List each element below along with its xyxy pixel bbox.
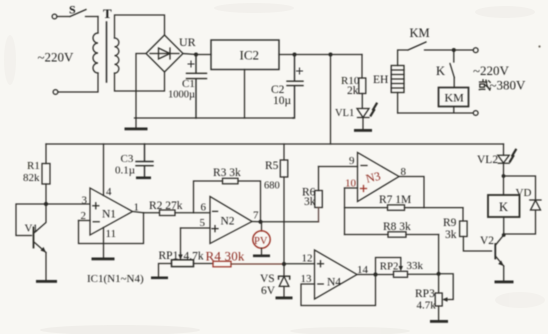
svg-text:4.7k: 4.7k [417, 300, 437, 312]
svg-text:VL2: VL2 [477, 154, 498, 166]
ground VS [276, 297, 293, 300]
svg-text:~220V: ~220V [473, 63, 510, 78]
speck [538, 45, 540, 47]
wire N1 output [133, 212, 160, 213]
wire +V down to op-amp rail [330, 55, 332, 145]
transformer T [93, 6, 119, 82]
ground RP3 [430, 320, 448, 323]
svg-text:R9: R9 [443, 217, 457, 229]
op-amp N2 [181, 197, 253, 244]
svg-text:VS: VS [260, 273, 275, 285]
svg-text:EH: EH [373, 74, 388, 86]
svg-text:6: 6 [201, 202, 207, 214]
junction RP2 right [437, 272, 441, 276]
svg-text:7: 7 [253, 210, 259, 222]
ground V1 [36, 280, 57, 283]
wire pin10 to R7 R8 [344, 188, 346, 235]
ground power rail [125, 118, 148, 130]
wire primary bottom [58, 73, 98, 92]
wire node to N4 pin12 [284, 263, 315, 265]
wire V2 emitter [503, 266, 505, 281]
svg-text:3k: 3k [304, 196, 316, 208]
svg-text:N4: N4 [327, 277, 341, 289]
svg-text:6V: 6V [261, 285, 276, 297]
node V1 base R1 [44, 202, 48, 206]
svg-text:N2: N2 [221, 216, 235, 228]
wire bridge plus to IC2 [183, 54, 211, 55]
svg-text:9: 9 [349, 155, 355, 167]
junction C2 top [293, 53, 297, 57]
ground C3 [136, 177, 151, 180]
transistor V1 [25, 204, 47, 253]
wire node to N1 pin3 [46, 203, 90, 205]
ground PV [253, 255, 270, 258]
svg-text:RP2: RP2 [380, 260, 399, 272]
wire N2 out to R6 [252, 221, 319, 223]
LED VL1 [335, 104, 377, 129]
svg-text:VL1: VL1 [335, 108, 354, 119]
svg-text:13: 13 [301, 273, 313, 285]
svg-text:4.7k: 4.7k [184, 251, 204, 263]
svg-text:R8 3k: R8 3k [383, 221, 411, 233]
svg-text:~380V: ~380V [490, 78, 527, 93]
junction VD branch [502, 174, 506, 178]
svg-text:R5: R5 [265, 160, 279, 172]
wire K coil to V2 [503, 217, 505, 235]
IC2 [211, 40, 279, 70]
svg-text:V1: V1 [25, 223, 38, 235]
ground N1 pin11 [92, 258, 115, 261]
op-amp N3 [345, 153, 400, 202]
diode VD [504, 176, 542, 234]
resistor R5 680 [264, 144, 288, 264]
svg-text:UR: UR [179, 35, 196, 49]
svg-text:N1: N1 [102, 209, 116, 221]
resistor R4 30k red [206, 249, 285, 267]
svg-text:33k: 33k [407, 260, 424, 272]
capacitor C1 1000u [168, 55, 207, 119]
terminal L1 top [52, 14, 57, 19]
junction N4 out [373, 272, 377, 276]
wire R8 to RP2 node [438, 235, 440, 274]
resistor R8 3k [345, 221, 439, 237]
svg-text:R1: R1 [27, 160, 40, 172]
capacitor C2 10u [271, 55, 303, 119]
junction C1 top [194, 53, 198, 57]
wire secondary bottom [115, 72, 165, 91]
contact KM [398, 26, 473, 66]
zener VS 6V [260, 264, 290, 297]
meter PV [253, 222, 270, 255]
resistor R10 2k [341, 55, 366, 109]
svg-text:R4 30k: R4 30k [206, 249, 245, 264]
svg-text:12: 12 [302, 253, 313, 265]
relay coil KM [439, 78, 469, 107]
svg-text:3: 3 [82, 195, 88, 207]
op-amp N4 [315, 250, 358, 299]
wire IC2 ground pin [244, 70, 246, 119]
junction N2 out [258, 220, 262, 224]
potentiometer RP2 33k [376, 258, 439, 278]
svg-text:0.1µ: 0.1µ [115, 165, 135, 177]
svg-text:K: K [436, 64, 445, 78]
svg-text:4: 4 [106, 186, 112, 198]
ground RP1 [151, 277, 168, 280]
terminal L1 bottom [53, 90, 58, 95]
svg-text:K: K [499, 200, 508, 214]
resistor R6 3k [302, 167, 322, 222]
svg-text:R7 1M: R7 1M [379, 194, 411, 206]
svg-text:IC2: IC2 [240, 48, 260, 63]
svg-text:IC1(N1~N4): IC1(N1~N4) [87, 273, 144, 285]
wire R6 to N3 pin9 [319, 166, 358, 168]
svg-text:S: S [69, 3, 76, 17]
wire primary top [97, 17, 99, 34]
svg-text:PV: PV [254, 236, 268, 247]
wire V1 emitter [45, 253, 47, 281]
svg-text:KM: KM [410, 26, 430, 40]
svg-text:10µ: 10µ [273, 95, 292, 107]
svg-text:T: T [103, 6, 112, 21]
svg-text:R2 27k: R2 27k [149, 200, 183, 212]
svg-text:2k: 2k [347, 85, 359, 97]
svg-text:C1: C1 [182, 78, 195, 90]
svg-text:2: 2 [81, 210, 87, 222]
svg-text:VD: VD [516, 187, 532, 199]
svg-text:~220V: ~220V [38, 50, 75, 65]
resistor R9 3k [443, 208, 492, 251]
svg-text:R3 3k: R3 3k [213, 167, 241, 179]
LED VL2 [477, 144, 516, 195]
svg-text:N3: N3 [364, 169, 382, 186]
op-amp N1 [79, 144, 133, 258]
power ground rail [135, 117, 294, 119]
svg-text:RP1: RP1 [159, 250, 179, 262]
svg-text:680: 680 [264, 181, 280, 192]
svg-text:82k: 82k [23, 172, 40, 184]
resistor R1 82k [23, 144, 50, 204]
wire N2 plus to RP1 wiper [180, 228, 182, 256]
heater EH [373, 66, 404, 114]
switch S [57, 3, 98, 17]
svg-text:3k: 3k [445, 229, 457, 241]
wire KM bottom [398, 107, 473, 114]
svg-text:V2: V2 [480, 235, 494, 247]
junction K branch [452, 48, 456, 52]
wire IC2 output [279, 54, 362, 56]
+V rail [46, 143, 504, 145]
capacitor C3 0.1u [115, 144, 153, 177]
wire N3 output [399, 177, 424, 208]
potentiometer RP3 4.7k [415, 274, 453, 320]
contact K [436, 50, 454, 78]
wire N4 feedback [301, 275, 376, 306]
resistor R3 3k [194, 167, 261, 222]
junction V2 collector [502, 233, 506, 237]
bridge rectifier UR [146, 35, 196, 72]
ground V2 [495, 281, 514, 284]
wire N1 feedback [79, 213, 144, 244]
svg-text:10: 10 [345, 178, 357, 190]
svg-text:1000µ: 1000µ [168, 90, 195, 101]
relay coil K [488, 195, 520, 217]
wire bridge minus to rail [136, 54, 146, 119]
terminal heater top [473, 48, 478, 53]
svg-text:5: 5 [200, 217, 206, 229]
junction +V drop [329, 53, 333, 57]
svg-text:11: 11 [106, 228, 117, 240]
terminal heater bottom [473, 111, 478, 116]
ground VL1 [354, 129, 372, 132]
wire secondary top [115, 15, 165, 38]
transistor V2 [480, 235, 504, 266]
label ~220V or ~380V [473, 63, 526, 93]
resistor R2 27k [149, 200, 210, 216]
svg-text:RP3: RP3 [415, 288, 435, 300]
wire N4 output [357, 274, 394, 276]
wire V1 base loop [16, 204, 46, 236]
junction node A [282, 262, 286, 266]
potentiometer RP1 4.7k [159, 250, 214, 277]
svg-text:C3: C3 [121, 153, 134, 165]
resistor R7 1M [345, 194, 464, 210]
svg-text:KM: KM [445, 91, 465, 105]
